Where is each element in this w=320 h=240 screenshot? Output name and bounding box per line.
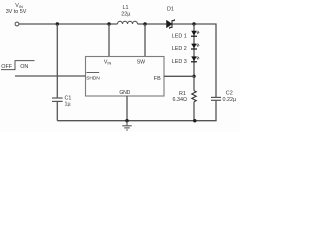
capacitor C2 [211,97,221,100]
junction R1 bottom on ground rail [193,119,196,122]
svg-text:GND: GND [119,90,130,96]
junction FB node [192,75,195,78]
svg-text:LED 3: LED 3 [172,59,187,65]
wire R1 bottom to ground rail [193,102,195,121]
wire C2 bottom to ground rail [215,100,217,120]
junction C1 tap [56,22,59,25]
svg-text:FB: FB [154,76,161,82]
IC U1 box [86,57,165,97]
LED 1 [191,31,199,36]
ground symbol [122,121,131,130]
node VIN input terminal [15,22,19,26]
wire C1 branch vertical [56,24,58,98]
LED 3 [191,56,199,61]
svg-text:22µ: 22µ [121,11,130,17]
wire right branch vertical (top rail to C2) [215,24,217,97]
svg-text:LED 2: LED 2 [172,46,187,52]
LED 2 [191,44,199,49]
svg-text:D1: D1 [167,7,174,13]
capacitor C1 [52,98,63,101]
wire top rail from VIN terminal to L1 [19,23,118,25]
svg-text:LED 1: LED 1 [172,33,187,39]
wire VIN pin vertical into IC [108,24,110,57]
junction LED string top [192,22,195,25]
svg-text:VIN: VIN [104,60,112,66]
svg-text:1µ: 1µ [65,102,71,108]
svg-text:OFF: OFF [1,64,12,70]
wire GND pin to ground rail [126,96,128,121]
wire C1 bottom to ground rail [56,101,58,120]
svg-text:SW: SW [137,59,145,65]
junction SW / L1 node [143,22,146,25]
wire FB to LED/R1 node [164,75,194,77]
resistor R1 [192,91,196,102]
wire from D1 cathode to right branch corner [173,23,217,25]
svg-text:6.34Ω: 6.34Ω [173,97,188,103]
svg-text:ON: ON [20,64,28,70]
svg-text:C2: C2 [226,90,233,96]
IC pin label SHDN (active low) [86,73,100,82]
diode D1 (Schottky) [167,19,175,29]
junction GND pin on ground rail [125,119,128,122]
inductor L1 [118,21,138,24]
svg-text:3V to 5V: 3V to 5V [6,9,27,15]
wire from L1 right to D1 anode [138,23,167,25]
svg-text:SHDN: SHDN [86,75,100,81]
node OFF/ON shutdown waveform [1,61,35,70]
svg-text:L1: L1 [123,5,129,11]
wire ground rail [57,120,216,122]
wire SW pin vertical into IC [144,24,146,57]
wire LED string vertical (top to FB node) [193,24,195,76]
junction VIN pin tap [107,22,110,25]
wire FB node to R1 top [193,76,195,90]
svg-text:0.22µ: 0.22µ [223,97,237,103]
wire SHDN input [15,75,86,77]
svg-text:C1: C1 [65,96,72,102]
